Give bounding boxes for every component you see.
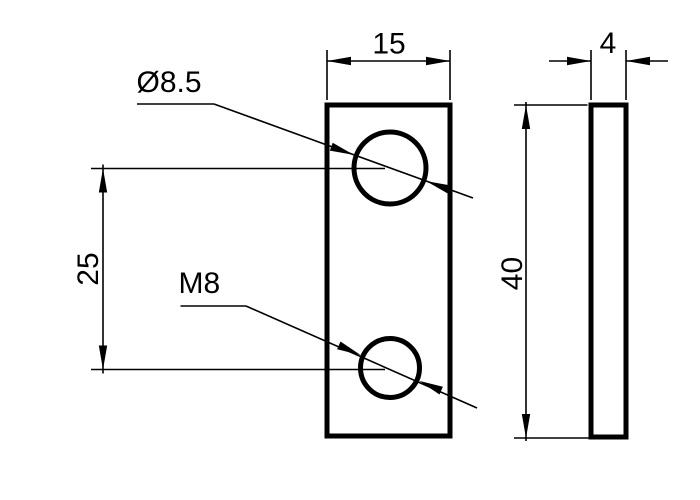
dimension 40 arrowheads [522, 105, 530, 438]
hole bottom (tapped M8) [361, 339, 420, 398]
svg-text:4: 4 [600, 27, 617, 60]
svg-text:Ø8.5: Ø8.5 [137, 66, 202, 99]
svg-text:25: 25 [72, 252, 105, 285]
front view plate outline [327, 105, 450, 436]
leader diameter 8.5 arrowheads [330, 143, 450, 194]
leader line M8 [181, 306, 478, 408]
leader line diameter 8.5 [137, 104, 473, 198]
dimension 4 (thickness of side view) [549, 50, 668, 100]
dimension 25 arrowheads [99, 169, 107, 370]
svg-text:M8: M8 [179, 267, 221, 300]
dimension 15 arrowheads [327, 57, 450, 65]
svg-text:15: 15 [372, 28, 405, 61]
side view plate outline [591, 105, 626, 437]
svg-text:40: 40 [496, 257, 529, 290]
dimension 40 (height of side view) [514, 102, 589, 441]
dimension 15 (width of front view) [327, 50, 450, 100]
leader M8 arrowheads [337, 342, 443, 395]
dimension 25 (hole spacing) [91, 165, 385, 374]
hole top (clearance 8.5) [354, 132, 426, 204]
dimension 4 arrowheads [567, 57, 650, 65]
